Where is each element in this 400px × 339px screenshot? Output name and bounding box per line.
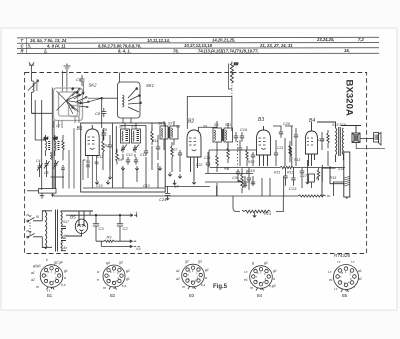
bus left [27,190,39,192]
wire with arrow down [108,159,111,179]
svg-text:R: R [21,49,24,54]
svg-text:a2: a2 [358,277,362,281]
svg-text:S6: S6 [158,122,162,126]
svg-text:h,g3: h,g3 [269,284,276,288]
wire from coil down left edge [32,92,36,113]
switch SK2 contacts [72,82,102,108]
svg-text:g1: g1 [205,268,209,272]
caps mid [126,157,130,165]
dashed chassis border [25,73,367,254]
capacitor C13 [291,168,295,186]
tube B2 [187,127,217,180]
tube B4 [306,127,318,166]
svg-text:C2: C2 [123,226,129,231]
svg-text:R2: R2 [105,144,109,148]
svg-text:C21: C21 [277,146,283,150]
volume pot R14 loop [233,196,283,217]
power transformer [42,210,66,252]
resistor near B4/transformer [289,128,329,166]
coil S3 [55,135,60,156]
svg-text:R11: R11 [274,171,280,175]
svg-text:g3: g3 [198,260,202,264]
svg-text:+: + [109,175,111,179]
svg-text:4,6: 4,6 [136,247,141,251]
resistor vertical [102,137,105,156]
resistor R16 on bus [298,195,326,197]
svg-text:e1: e1 [244,278,248,282]
cathode parts B4 [300,168,315,188]
svg-text:Fig.5: Fig.5 [213,284,228,290]
svg-text:R1: R1 [86,160,90,164]
svg-text:a2: a2 [31,278,35,282]
wire B2 plate to IF2 [199,127,218,132]
trimmer caps [38,163,42,172]
svg-text:R74326: R74326 [334,253,351,258]
resistor 10 (mains antenna) [231,62,233,64]
svg-text:k: k [46,258,48,262]
inner bus line [83,187,165,189]
svg-text:g2,g4: g2,g4 [54,261,63,265]
svg-text:SK2: SK2 [89,83,98,88]
resistor R11 inline on bus [280,166,293,168]
svg-text:k,s: k,s [122,284,127,288]
svg-text:C14: C14 [140,153,147,157]
cap C19 [240,132,244,142]
wire to C24 [165,180,210,200]
long chassis bus [54,195,210,197]
svg-text:m: m [250,286,253,290]
svg-text:16,: 16, [344,48,350,53]
IF shield rectangle [81,123,166,192]
svg-text:S4: S4 [44,137,49,141]
svg-text:e: e [97,278,99,282]
svg-text:a1: a1 [358,269,362,273]
audio bus lines [205,150,345,197]
svg-text:g3: g3 [119,261,123,265]
svg-text:C22: C22 [196,163,202,167]
ground top [63,64,71,88]
svg-text:3,: 3, [28,43,32,48]
svg-text:10,17,12,13,18: 10,17,12,13,18 [184,43,213,48]
svg-text:C14: C14 [152,139,158,143]
svg-text:a: a [205,276,207,280]
svg-text:4V: 4V [63,246,68,250]
svg-text:C20: C20 [283,122,291,126]
svg-text:a: a [64,276,66,280]
svg-text:i.c: i.c [337,260,341,264]
resistors below [216,152,219,166]
socket B5 [334,265,359,293]
resistor v2 [116,149,119,164]
small resistor x318 [317,168,319,181]
svg-text:I0: I0 [36,215,39,219]
svg-text:C8: C8 [95,111,101,116]
capacitor C24 [165,187,171,200]
coil box S6 [121,129,130,143]
svg-text:10: 10 [234,61,239,66]
svg-text:C12: C12 [126,153,133,157]
svg-text:74,(13,(4,15)(17,74,(73,(8,19,: 74,(13,(4,15)(17,74,(73,(8,19,77, [198,48,259,53]
svg-text:h,s: h,s [61,283,66,287]
svg-text:e1: e1 [329,278,333,282]
svg-text:B3: B3 [258,117,264,123]
svg-text:10,11,12,14,: 10,11,12,14, [147,38,170,43]
wire [102,97,118,99]
svg-text:B5: B5 [342,293,348,298]
svg-text:C19: C19 [240,128,248,132]
capacitor C22 [283,168,287,186]
mains tilde marks [27,215,32,217]
IF2 transformer [213,121,251,196]
svg-text:4, 8 (4, 11: 4, 8 (4, 11 [46,43,66,48]
ground [40,193,44,198]
svg-text:C15: C15 [204,156,210,160]
wire [35,100,46,140]
svg-text:C24: C24 [159,197,167,202]
svg-text:S14: S14 [338,167,344,171]
wire AVC to B3 grid [209,150,257,168]
svg-text:R: R [316,177,319,181]
capacitor C6 [80,75,85,86]
scattered small labels [36,124,344,180]
svg-text:C6: C6 [76,77,82,82]
svg-text:23,24,25,: 23,24,25, [316,37,334,42]
oscillator box SK1 [118,73,142,124]
svg-text:21, 23, 27, 24, 31: 21, 23, 27, 24, 31 [259,43,293,48]
coil S4 [46,135,51,156]
svg-text:g2: g2 [264,261,268,265]
C20 [273,126,293,142]
resistor near B2 [168,142,195,184]
svg-text:C17: C17 [300,174,308,178]
svg-text:R10: R10 [248,160,254,164]
svg-text:m: m [103,286,106,290]
svg-text:14,20,21,25,: 14,20,21,25, [212,38,235,43]
svg-text:7,2: 7,2 [358,37,364,42]
svg-text:S9: S9 [214,123,218,127]
svg-text:g: g [252,261,254,265]
svg-text:R8: R8 [224,167,228,171]
svg-text:8, 4, 1,: 8, 4, 1, [118,49,131,54]
volume potentiometer [241,168,244,193]
svg-text:C11: C11 [97,155,103,159]
svg-text:S15 S16: S15 S16 [332,123,346,127]
svg-text:g2: g2 [126,269,130,273]
IF1 transformer S8 [160,121,178,150]
svg-text:S8: S8 [176,125,180,129]
power mains switch [27,211,52,248]
svg-text:76,: 76, [173,48,179,53]
component box R1 [39,189,57,194]
svg-text:m: m [36,285,39,289]
svg-text:C13: C13 [143,184,150,188]
output transformer S15 S16 [312,122,344,162]
small resistor [51,152,53,160]
socket B4 [250,266,273,291]
svg-text:i.c: i.c [244,270,248,274]
svg-text:i.c: i.c [328,270,332,274]
socket B2 [103,265,125,290]
trimmer caps below [121,145,125,153]
svg-text:S11: S11 [225,123,231,127]
svg-text:R12: R12 [287,171,294,175]
svg-text:C23: C23 [318,138,324,142]
svg-text:m: m [182,285,185,289]
wires inside shield [121,123,147,148]
svg-text:C4: C4 [36,159,40,163]
socket B1 [40,265,63,290]
svg-text:k,s: k,s [201,283,206,287]
svg-text:a: a [273,277,275,281]
svg-text:R13: R13 [294,158,300,162]
capacitor C9 [101,128,106,140]
svg-text:g2g3: g2g3 [33,264,41,268]
filter caps and R3 [66,213,140,248]
svg-text:R4: R4 [118,158,122,162]
svg-text:B2: B2 [188,119,194,125]
svg-text:+: + [121,166,123,170]
tuning gang shield boxes [54,88,83,128]
svg-text:R14: R14 [264,212,271,216]
tuning gang arrows [57,88,83,115]
svg-text:i.c: i.c [351,260,355,264]
svg-text:B2: B2 [110,293,116,298]
svg-text:a: a [97,270,99,274]
svg-text:g1: g1 [273,269,277,273]
svg-text:C5: C5 [44,171,48,175]
svg-text:2,: 2, [43,49,48,54]
svg-text:C7: C7 [56,124,60,128]
node [101,97,103,99]
wire to IF2 and L to B2 grid [231,96,233,132]
svg-text:+: + [136,211,138,215]
svg-text:g2: g2 [185,260,189,264]
svg-text:a2: a2 [176,277,180,281]
svg-text:+: + [96,182,98,186]
resistors R9 R10 near B3 [238,126,292,174]
wire and ground x307 [306,160,309,184]
svg-text:i.c: i.c [334,287,338,291]
svg-text:S6: S6 [119,125,123,129]
svg-text:S17: S17 [63,220,69,224]
field coil / choke rect [322,152,350,199]
socket B3 [182,264,205,289]
wire antenna down [31,73,33,82]
svg-text:C3: C3 [99,226,105,231]
wires top mid [101,61,239,131]
svg-text:B4: B4 [257,293,263,298]
svg-text:R15: R15 [330,176,336,180]
svg-text:g1: g1 [64,269,68,273]
mixer coils cluster [54,123,210,196]
parts table lines [17,37,379,53]
left coils section [27,88,74,199]
svg-text:S9: S9 [203,125,207,129]
caps on audio lines [243,184,247,186]
svg-text:BX320A: BX320A [344,80,355,117]
C15 cluster left [206,160,210,168]
svg-text:g4: g4 [106,261,110,265]
svg-text:a1: a1 [176,269,180,273]
svg-text:g1: g1 [126,277,130,281]
svg-text:C27: C27 [171,148,177,152]
coil box S7 [132,129,141,143]
capacitor C8 [101,108,106,117]
svg-text:B1: B1 [77,126,83,132]
svg-text:C26: C26 [232,176,238,180]
svg-text:B3: B3 [189,293,195,298]
svg-text:B1: B1 [47,293,53,298]
svg-text:SK1: SK1 [146,83,154,88]
svg-text:C16: C16 [248,169,255,173]
svg-text:C13: C13 [289,186,297,191]
svg-text:B4: B4 [309,118,315,124]
tube B1 [83,125,99,188]
speaker [341,126,385,149]
grounds in shield [95,180,98,184]
tube B3 [257,126,271,166]
antenna coil L1 [28,80,39,92]
parts table row 1 [21,37,365,53]
svg-text:a1: a1 [31,271,35,275]
external speaker jack [360,133,381,146]
antenna [29,62,34,72]
